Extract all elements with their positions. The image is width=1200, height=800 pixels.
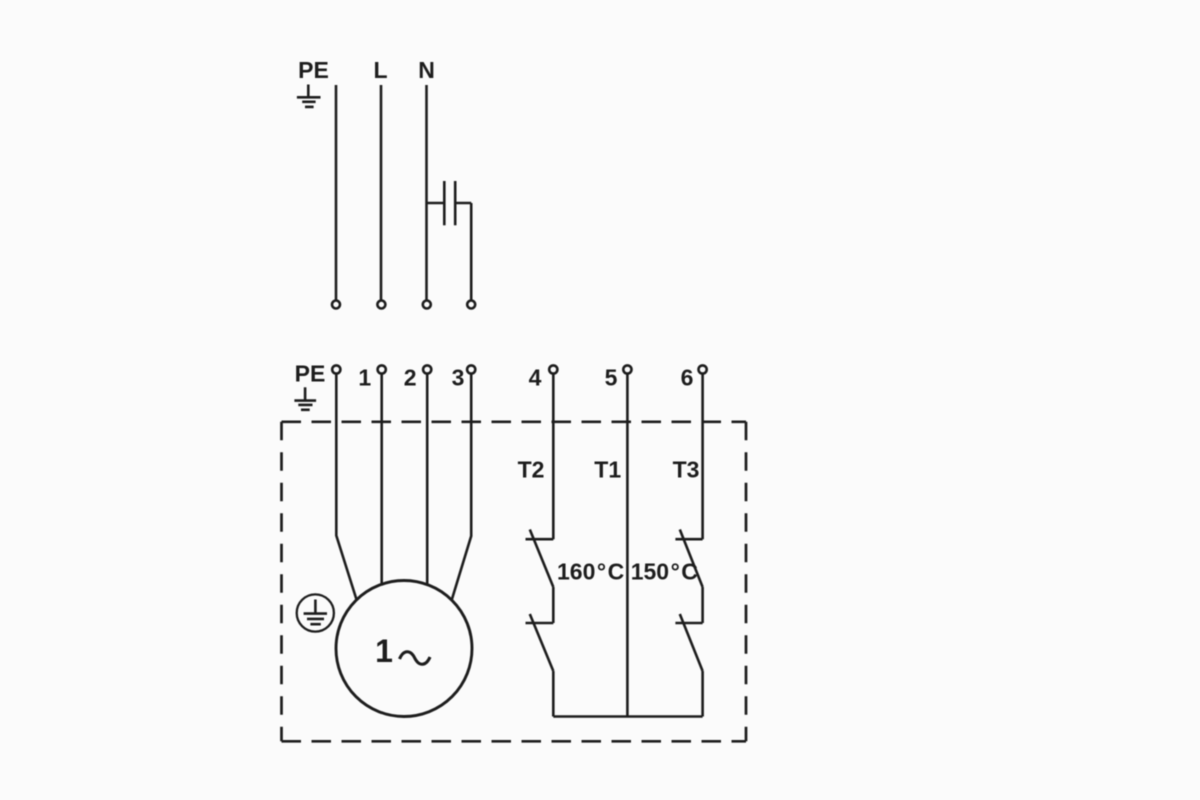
svg-text:PE: PE: [295, 361, 326, 387]
svg-text:6: 6: [681, 365, 694, 391]
svg-text:3: 3: [452, 365, 465, 391]
svg-text:PE: PE: [298, 57, 329, 83]
svg-text:T3: T3: [673, 457, 700, 483]
svg-text:T2: T2: [518, 457, 545, 483]
svg-text:L: L: [373, 57, 387, 83]
svg-text:1: 1: [358, 365, 371, 391]
svg-text:5: 5: [605, 365, 618, 391]
svg-text:N: N: [418, 57, 435, 83]
svg-text:2: 2: [404, 365, 417, 391]
svg-text:150°C: 150°C: [631, 559, 698, 585]
svg-text:160°C: 160°C: [557, 559, 624, 585]
svg-text:1: 1: [375, 633, 393, 669]
svg-text:4: 4: [529, 365, 542, 391]
svg-text:T1: T1: [594, 457, 621, 483]
